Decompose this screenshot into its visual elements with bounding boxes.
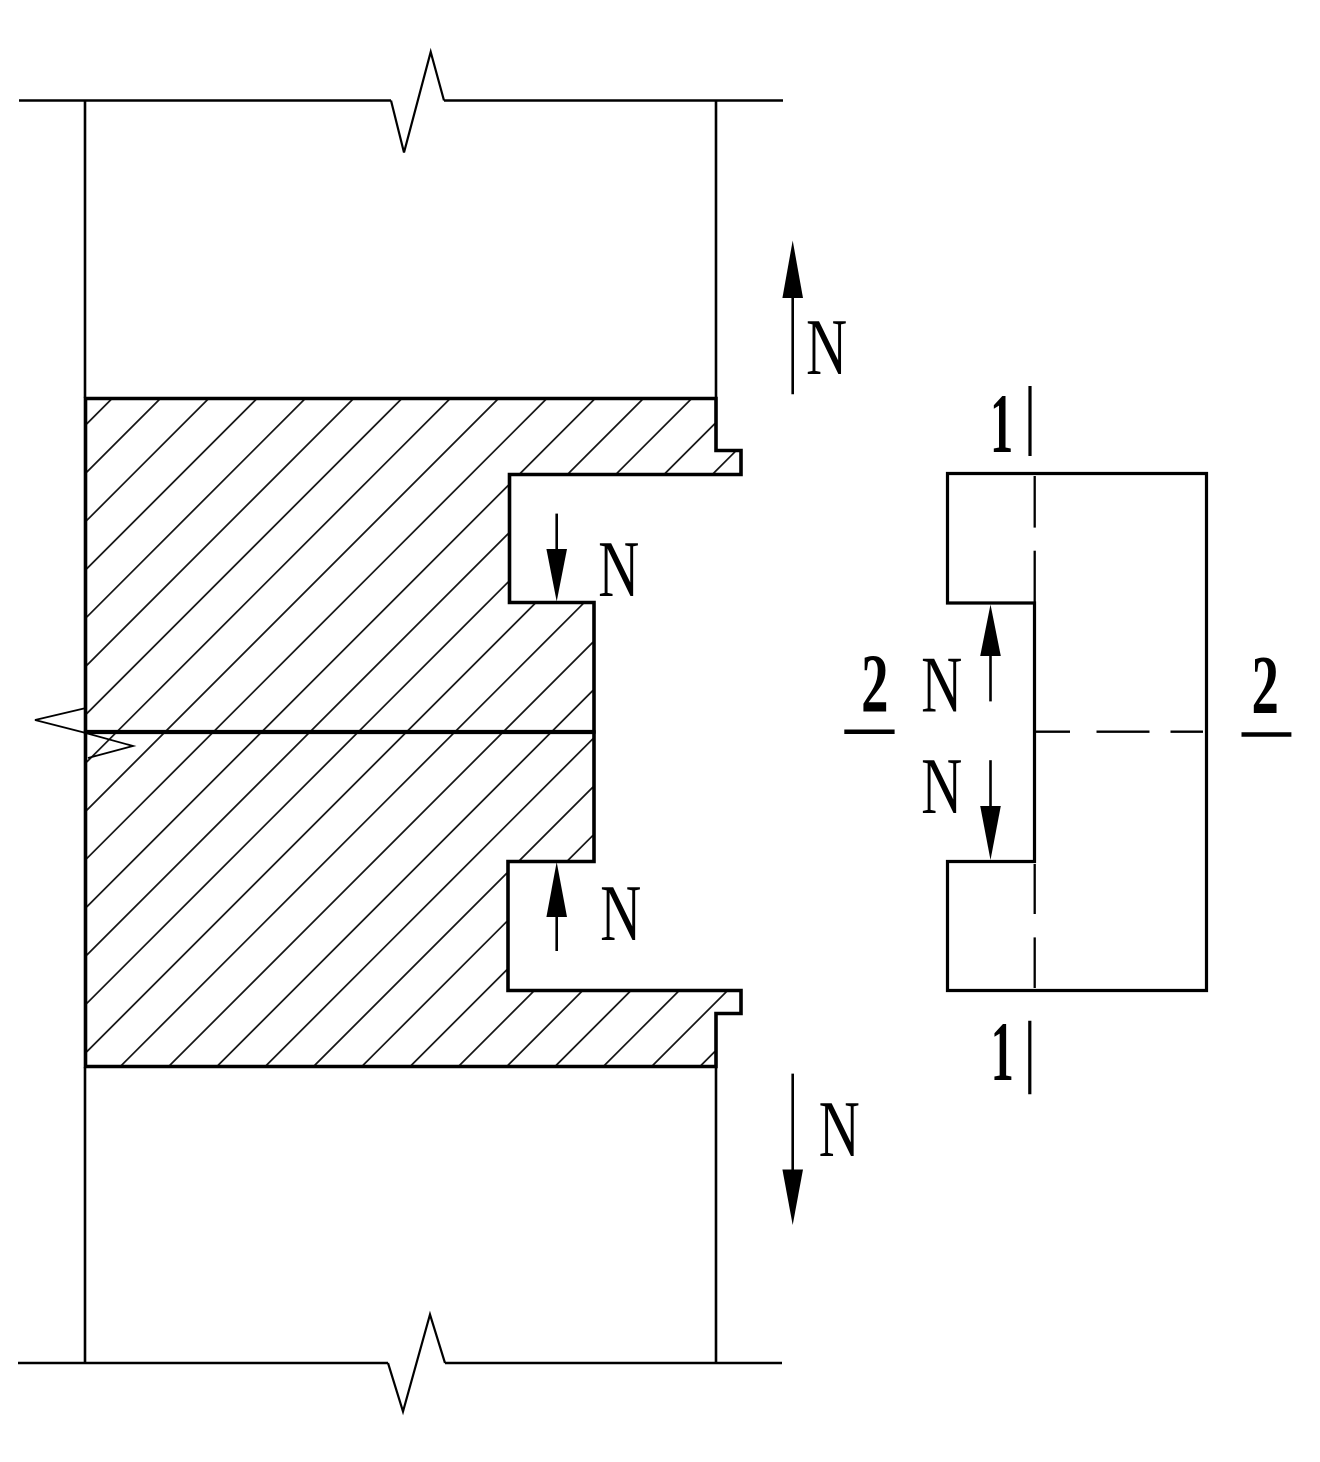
force arrow N outer top (up) (791, 295, 794, 394)
svg-text:N: N (806, 304, 847, 393)
hidden edge dashes in top flange (1034, 476, 1036, 528)
svg-text:1: 1 (990, 376, 1013, 470)
section line 2-2 dashes (1035, 731, 1071, 733)
bottom break symbol (388, 1315, 445, 1412)
svg-text:N: N (921, 742, 962, 831)
left break zigzag at mid joint (35, 708, 133, 758)
section tick 1 bottom (1028, 1021, 1031, 1095)
column right edge lower (715, 1067, 718, 1363)
svg-text:2: 2 (861, 638, 888, 730)
mid joint line (85, 730, 594, 734)
section tick 1 top (1028, 386, 1031, 456)
top break symbol (391, 52, 444, 153)
force arrow N inner upper (down) (555, 514, 558, 555)
svg-text:N: N (921, 641, 962, 730)
svg-text:1: 1 (991, 1004, 1014, 1098)
lower joint block outline (86, 732, 742, 1067)
side view force arrow N up (989, 654, 992, 701)
wall bottom rail right segment (445, 1362, 782, 1365)
hidden edge dashes in bottom flange (1034, 864, 1036, 914)
section tick 2 left (844, 729, 894, 734)
force arrow N inner lower (up) (555, 911, 558, 951)
svg-text:N: N (600, 869, 641, 958)
force arrow N outer bottom (down) (791, 1074, 794, 1172)
column left edge upper (84, 101, 87, 399)
side view force arrow N down (989, 760, 992, 808)
side view outline (948, 474, 1207, 991)
svg-text:2: 2 (1252, 640, 1279, 732)
svg-text:N: N (598, 525, 639, 614)
column left edge lower (84, 1067, 87, 1363)
wall top rail left segment (19, 99, 391, 102)
svg-text:N: N (819, 1085, 860, 1174)
upper joint block outline (86, 399, 742, 733)
hatching of joint blocks (0, 390, 1320, 1075)
column right edge upper (715, 101, 718, 399)
wall bottom rail left segment (18, 1362, 388, 1365)
section tick 2 right (1242, 732, 1292, 737)
wall top rail right segment (444, 99, 783, 102)
